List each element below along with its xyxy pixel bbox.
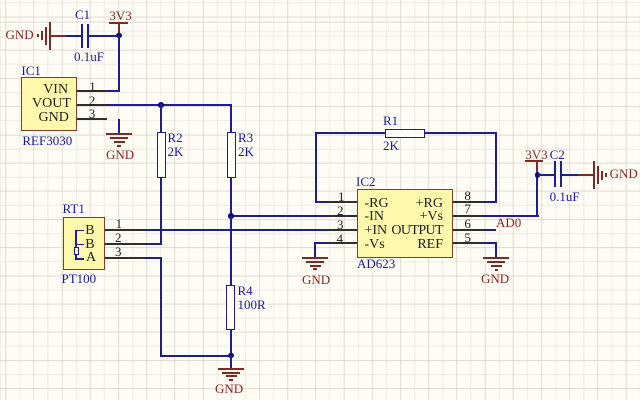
wire R2 bottom to RT1 pin2 — [160, 178, 162, 245]
wire R2 top — [160, 104, 162, 132]
wire IC1 pin3 to GND — [118, 119, 120, 135]
label GND under IC2 right — [481, 272, 509, 285]
label 0.1uF — [74, 50, 104, 63]
IC2 pin name -IN — [365, 210, 384, 224]
IC2 pin number 4 — [337, 232, 344, 245]
RT1 pin 3 — [105, 257, 145, 259]
wire bottom to R4 junction — [160, 355, 232, 357]
IC IC2 body — [357, 189, 453, 258]
label GND right — [610, 167, 638, 180]
IC2 pin number 5 — [464, 231, 471, 244]
wire R3 top — [230, 104, 232, 132]
wire to IC1 pin1 — [107, 90, 120, 92]
wire RT1 pin2 to R2 — [145, 243, 162, 245]
wire IC2 pin7 to 3V3 — [483, 215, 539, 217]
IC2 pin 6 — [453, 229, 483, 231]
power port GND right — [578, 160, 608, 192]
wire -IN node down to R4 — [230, 216, 232, 285]
IC1 pin number 2 — [89, 94, 96, 107]
wire IC2 pin8 to R1 — [483, 201, 497, 203]
label 2K of R2 — [168, 145, 184, 158]
label 2K of R1 — [383, 139, 399, 152]
RT1 pin number 2 — [115, 231, 122, 244]
IC2 pin name +Vs — [390, 210, 443, 224]
label GND under R4 — [215, 382, 243, 395]
ground symbol under IC1 — [106, 133, 132, 147]
ground symbol under R4 — [218, 368, 244, 382]
junction node 3V3/C2 — [535, 172, 541, 178]
label REF3030 — [22, 134, 72, 147]
ground symbol under IC2 right — [483, 257, 509, 271]
resistor R1 — [385, 129, 425, 138]
wire IC2 pin5 stub — [483, 242, 497, 244]
label 0.1uF of C2 — [550, 190, 580, 203]
wire R3 bottom to -IN node — [230, 178, 232, 217]
label R3 — [238, 131, 253, 144]
RT1 pin number 1 — [116, 217, 123, 230]
IC2 pin name -Vs — [365, 238, 385, 252]
IC1 pin name GND — [39, 111, 69, 125]
capacitor C1 — [81, 24, 90, 48]
label C1 — [75, 8, 90, 21]
label 100R — [238, 298, 266, 311]
IC2 pin 2 — [327, 215, 357, 217]
IC2 pin number 1 — [338, 190, 345, 203]
IC2 pin number 8 — [464, 189, 471, 202]
wire R1 right down to +RG — [495, 132, 497, 203]
IC2 pin 3 — [327, 229, 357, 231]
power port 3V3 top — [109, 22, 128, 38]
RT1 internal element symbol — [73, 229, 86, 261]
power port 3V3 right — [525, 160, 543, 176]
junction node VOUT/R2 — [158, 102, 164, 108]
IC2 pin 4 — [327, 242, 357, 244]
power port GND top-left — [36, 20, 52, 52]
IC2 pin name +RG — [390, 197, 443, 211]
wire C2 to GND port — [562, 174, 579, 176]
RT1 pin 2 — [105, 243, 145, 245]
IC1 pin name VIN — [43, 83, 68, 97]
wire R4 bottom — [230, 329, 232, 356]
IC2 pin number 6 — [464, 217, 471, 230]
label GND under IC2 left — [302, 273, 330, 286]
IC2 pin number 7 — [464, 202, 471, 215]
IC2 pin 1 — [327, 201, 357, 203]
IC2 pin 7 — [453, 215, 483, 217]
resistor R4 — [226, 285, 235, 330]
IC1 pin 2 — [77, 104, 107, 106]
label AD623 — [357, 257, 395, 270]
label C2 — [550, 148, 565, 161]
wire junction to ground — [230, 356, 232, 369]
RT1 pin number 3 — [115, 245, 122, 258]
IC2 pin number 2 — [337, 204, 344, 217]
wire junction to C2 — [538, 174, 554, 176]
net label AD0 — [496, 216, 521, 229]
label IC1 — [21, 64, 41, 77]
IC2 pin name -RG — [365, 197, 389, 211]
wire IC2 pin6 AD0 stub — [483, 229, 496, 231]
IC2 pin 8 — [453, 201, 483, 203]
wire up to 3V3 junction — [536, 175, 538, 217]
IC2 pin name REF — [390, 238, 443, 252]
label IC2 — [356, 175, 376, 188]
junction node R3/R4/-IN — [228, 213, 234, 219]
wire IC2 pin4 stub — [315, 242, 328, 244]
wire IC2 pin4 down to ground — [314, 242, 316, 258]
wire R1 left — [315, 132, 385, 134]
wire R1 right — [425, 132, 497, 134]
wire -IN node to IC2 — [230, 215, 330, 217]
label GND under IC1 — [106, 148, 134, 161]
wire junction down to IC1 pin1 — [118, 36, 120, 92]
label R4 — [238, 284, 253, 297]
label PT100 — [62, 272, 97, 285]
RT1 pin name A — [86, 251, 96, 265]
wire to IC2 pin1 — [315, 201, 328, 203]
wire GND to C1 — [66, 35, 82, 37]
wire IC2 pin5 down to ground — [495, 242, 497, 257]
resistor R3 — [227, 132, 236, 178]
label RT1 — [63, 202, 85, 215]
label 3V3 top — [109, 9, 131, 22]
wire RT1 pin1 to IC2 +IN — [145, 229, 330, 231]
label 2K of R3 — [238, 145, 254, 158]
IC1 pin 1 — [77, 90, 107, 92]
label R2 — [168, 131, 183, 144]
IC RT1 body — [63, 217, 104, 271]
IC1 pin number 3 — [89, 107, 96, 120]
wire R1 left down to -RG — [315, 132, 317, 203]
RT1 pin 1 — [105, 229, 145, 231]
IC1 pin name VOUT — [32, 97, 71, 111]
RT1 pin name B — [85, 224, 94, 238]
IC2 pin name OUTPUT — [390, 224, 443, 238]
label GND top-left — [6, 28, 34, 41]
IC2 pin 5 — [453, 242, 483, 244]
resistor R2 — [157, 132, 166, 178]
RT1 pin name B2 — [85, 238, 94, 252]
capacitor C2 — [554, 161, 563, 186]
wire RT1 pin3 stub — [145, 257, 162, 259]
junction node 3V3/C1 — [116, 33, 122, 39]
label R1 — [383, 114, 398, 127]
wire C1 to junction — [89, 35, 120, 37]
ground symbol under IC2 left — [302, 257, 328, 271]
wire VOUT to R3 top — [107, 104, 232, 106]
IC2 pin name +IN — [365, 224, 388, 238]
junction node R4/GND — [228, 353, 234, 359]
IC1 pin 3 — [77, 118, 107, 120]
wire RT1 pin3 down — [160, 257, 162, 357]
IC2 pin number 3 — [337, 218, 344, 231]
label 3V3 right — [525, 148, 547, 161]
IC IC1 body — [21, 77, 76, 131]
IC1 pin number 1 — [89, 80, 96, 93]
